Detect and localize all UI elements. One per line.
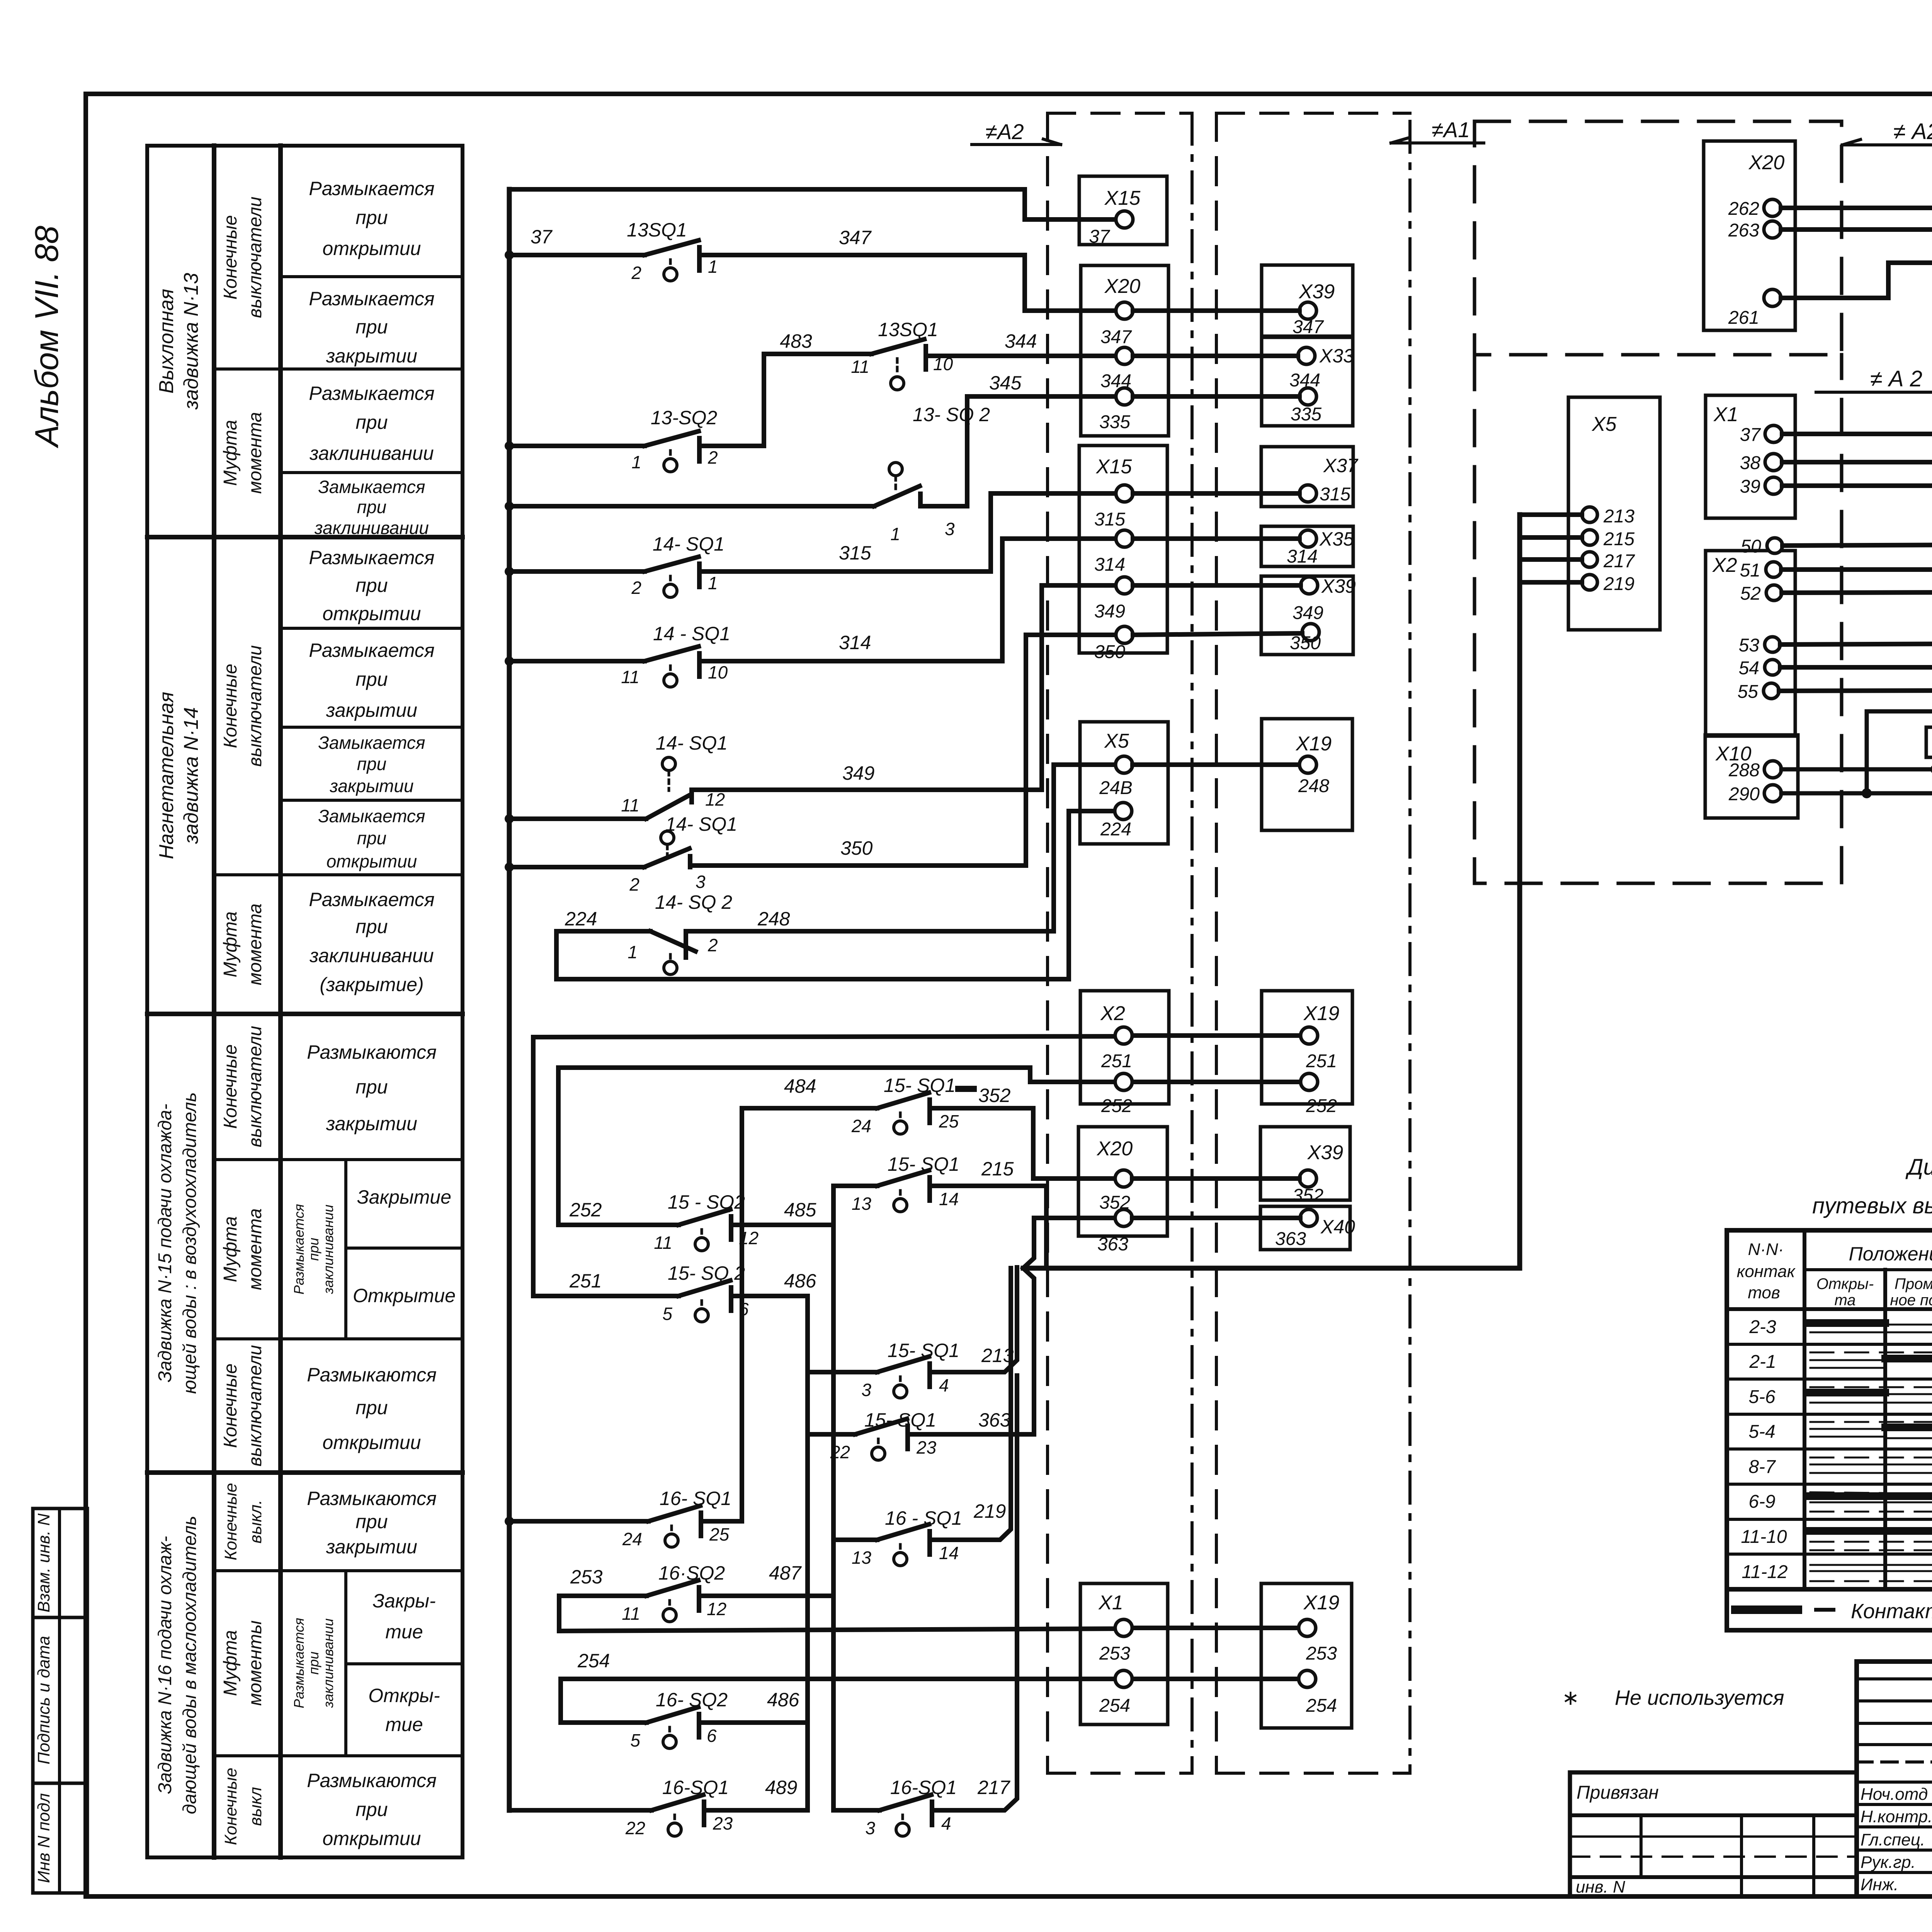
svg-text:13: 13 (852, 1548, 872, 1568)
svg-text:219: 219 (1603, 574, 1634, 594)
svg-text:251: 251 (1101, 1051, 1132, 1071)
svg-text:моменты: моменты (245, 1621, 265, 1706)
svg-text:при: при (355, 916, 388, 937)
svg-text:Открытие: Открытие (353, 1285, 456, 1306)
svg-text:Размыкается: Размыкается (291, 1618, 307, 1708)
svg-text:тие: тие (385, 1714, 423, 1735)
svg-text:14- SQ1: 14- SQ1 (665, 813, 737, 835)
wires X20 right to motor 13 (1781, 208, 1932, 298)
left description table: outer box (147, 146, 463, 1857)
torque switch 13-SQ2 contacts 1-2 (509, 354, 764, 472)
svg-text:252: 252 (569, 1199, 602, 1221)
svg-text:12: 12 (705, 789, 725, 810)
svg-text:13- SQ 2: 13- SQ 2 (913, 404, 990, 425)
svg-text:5-4: 5-4 (1748, 1422, 1775, 1442)
svg-text:закрытии: закрытии (326, 1113, 417, 1134)
diagram row labels (1741, 1317, 1787, 1582)
wires X1 right to motor 14 (1782, 434, 1932, 486)
label "не А2" at unit box top with underline (1893, 119, 1932, 144)
svg-text:224: 224 (1100, 819, 1131, 840)
terminal block X19 (253,254) (1261, 1583, 1352, 1728)
signature names (1861, 1785, 1932, 1894)
svg-text:24: 24 (851, 1116, 871, 1136)
svg-text:14: 14 (939, 1189, 959, 1209)
svg-text:Размыкается: Размыкается (309, 383, 434, 404)
svg-text:13: 13 (852, 1194, 872, 1214)
svg-text:14- SQ1: 14- SQ1 (653, 533, 724, 555)
svg-text:251: 251 (1306, 1051, 1337, 1071)
svg-text:Подпись и дата: Подпись и дата (34, 1636, 53, 1765)
svg-text:при: при (357, 754, 386, 774)
terminal block X35 (314) (1261, 526, 1353, 566)
svg-text:38: 38 (1740, 453, 1761, 473)
svg-text:37: 37 (1089, 226, 1111, 247)
svg-text:Промежуточ-: Промежуточ- (1895, 1276, 1932, 1293)
svg-text:Конечные: Конечные (220, 1044, 241, 1129)
svg-text:Размыкается: Размыкается (309, 639, 434, 661)
svg-text:335: 335 (1291, 404, 1321, 425)
svg-text:224: 224 (565, 908, 597, 930)
svg-text:335: 335 (1099, 412, 1130, 432)
svg-text:Конечные: Конечные (221, 1768, 240, 1845)
limit switch 16-SQ1 contacts 24-25 (509, 1506, 742, 1547)
svg-text:13SQ1: 13SQ1 (627, 219, 687, 241)
svg-text:контак: контак (1737, 1262, 1796, 1281)
terminal block X5 (right, 213 215 217 219) (1568, 397, 1660, 630)
svg-text:Инв N подл: Инв N подл (34, 1793, 53, 1883)
svg-text:50: 50 (1741, 536, 1762, 557)
svg-text:315: 315 (1094, 509, 1125, 530)
svg-text:Не используется: Не используется (1615, 1686, 1784, 1709)
svg-text:X1: X1 (1713, 403, 1738, 426)
svg-text:X1: X1 (1098, 1592, 1123, 1614)
svg-text:задвижка N·13: задвижка N·13 (180, 273, 202, 410)
wire 253 to X1/X19 (559, 1628, 1299, 1631)
svg-text:та: та (1834, 1292, 1855, 1309)
svg-text:заклинивании: заклинивании (320, 1618, 336, 1708)
svg-text:217: 217 (977, 1777, 1011, 1798)
svg-text:3: 3 (865, 1818, 875, 1838)
svg-text:открытии: открытии (323, 603, 421, 624)
dashed bottom edges of cabinet regions (1048, 113, 1410, 1773)
terminal block X20 (352,363) (1078, 1127, 1167, 1236)
limit switch 15-SQ1 contacts 3-4, wire 213 (808, 1267, 1017, 1398)
limit switch 16-SQ1 contacts 3-4, wire 217 (833, 1376, 1017, 1836)
svg-text:262: 262 (1728, 199, 1759, 219)
wire X20-363 to X40-363 (1132, 1216, 1300, 1220)
torque switch 15-SQ2 contacts 11-12, wire 485 (558, 1209, 833, 1251)
svg-text:X5: X5 (1104, 730, 1129, 752)
legend: closed contact (1735, 1605, 1833, 1614)
svg-text:X39: X39 (1321, 575, 1356, 597)
svg-text:Замыкается: Замыкается (318, 806, 425, 826)
wire 347 to X20 (700, 255, 1113, 311)
svg-text:25: 25 (709, 1524, 730, 1544)
svg-text:1: 1 (628, 942, 638, 962)
terminal block X37 (315) (1261, 447, 1353, 507)
svg-text:263: 263 (1728, 220, 1759, 241)
svg-text:213: 213 (1603, 506, 1634, 527)
torque switch 14-SQ2 contacts 1-2, wires 224 / 248 (556, 765, 1113, 979)
svg-text:заклинивании: заклинивании (309, 442, 434, 464)
limit switch 13SQ1 contacts 2-1 (645, 240, 699, 281)
terminal block X39 (347) (1262, 265, 1353, 336)
label "не А2" at lower unit with underline (1870, 366, 1922, 391)
svg-text:открытии: открытии (323, 1432, 421, 1453)
svg-text:254: 254 (1306, 1696, 1337, 1716)
left table col3 texts (307, 178, 456, 1849)
svg-text:217: 217 (1603, 551, 1635, 571)
svg-text:11: 11 (851, 357, 869, 377)
svg-text:288: 288 (1728, 760, 1760, 781)
svg-text:344: 344 (1289, 370, 1320, 391)
svg-text:483: 483 (780, 330, 812, 352)
svg-text:352: 352 (1293, 1185, 1323, 1206)
svg-text:6-9: 6-9 (1748, 1492, 1775, 1512)
svg-text:486: 486 (784, 1270, 816, 1292)
svg-text:Муфта: Муфта (220, 1630, 241, 1696)
svg-text:при: при (355, 1397, 388, 1418)
svg-text:Закрытие: Закрытие (357, 1186, 451, 1208)
svg-text:10: 10 (933, 354, 953, 374)
limit switch 14-SQ1 contacts 11-12, wire 349 (509, 585, 1113, 819)
svg-text:открытии: открытии (323, 1828, 421, 1849)
svg-text:252: 252 (1306, 1096, 1337, 1116)
svg-text:253: 253 (1306, 1643, 1337, 1664)
svg-text:открытии: открытии (323, 238, 421, 259)
svg-text:Нагнетательная: Нагнетательная (155, 692, 178, 859)
svg-text:X35: X35 (1319, 528, 1354, 550)
svg-text:8-7: 8-7 (1748, 1457, 1776, 1477)
limit switch 15-SQ1 contacts 24-25, wires 484/352 (742, 1093, 1115, 1521)
svg-text:Выхлопная: Выхлопная (155, 289, 178, 393)
svg-text:485: 485 (784, 1199, 816, 1221)
svg-text:при: при (355, 1511, 388, 1532)
svg-text:344: 344 (1005, 330, 1037, 352)
svg-text:14- SQ 2: 14- SQ 2 (655, 891, 732, 913)
left supply bus (507, 189, 512, 1810)
svg-text:выключатели: выключатели (245, 645, 265, 767)
svg-text:1: 1 (708, 573, 718, 593)
svg-text:Размыкается: Размыкается (309, 178, 434, 199)
svg-text:5: 5 (662, 1304, 672, 1324)
svg-text:3: 3 (861, 1380, 871, 1400)
wire X20-352 to X39-352 (1132, 1176, 1299, 1181)
svg-text:3: 3 (696, 872, 706, 892)
svg-text:Н.контр.: Н.контр. (1861, 1807, 1932, 1826)
torque switch 15-SQ2 contacts 5-6, wire 486 (533, 1281, 808, 1322)
svg-text:≠ А 2: ≠ А 2 (1870, 366, 1922, 391)
svg-text:23: 23 (916, 1437, 937, 1458)
terminal block X39 (352) (1260, 1127, 1350, 1200)
svg-text:15- SQ1: 15- SQ1 (884, 1075, 956, 1096)
wire 483 row with switch 13SQ1 contacts 11-10 (764, 339, 1113, 390)
label "не А2" top left with leader (985, 119, 1024, 144)
svg-text:при: при (355, 316, 388, 338)
svg-text:тие: тие (385, 1621, 423, 1643)
svg-text:15- SQ1: 15- SQ1 (888, 1340, 959, 1361)
svg-text:5: 5 (630, 1730, 640, 1750)
wires X2 50-52 to motor 15 (1781, 544, 1932, 593)
terminal block X10 (288,290) (1705, 735, 1798, 818)
dashed cabinet boundary line A2 (left) (1046, 113, 1049, 1773)
bus junction dots (505, 250, 514, 1526)
svg-text:при: при (357, 497, 386, 517)
svg-text:∗: ∗ (1562, 1686, 1579, 1709)
svg-text:Размыкаются: Размыкаются (307, 1488, 437, 1509)
vertical link wires of 15/16 group (808, 1186, 833, 1810)
svg-text:выключатели: выключатели (245, 1026, 265, 1147)
svg-text:Откры-: Откры- (368, 1685, 440, 1706)
svg-text:363: 363 (1097, 1234, 1128, 1255)
svg-text:2: 2 (631, 578, 641, 598)
svg-text:при: при (355, 575, 388, 596)
torque switch 16-SQ2 contacts 11-12, wires 253/487 (559, 1580, 833, 1631)
wires X20 344/335 to X33 (1133, 356, 1299, 396)
svg-text:290: 290 (1728, 784, 1760, 804)
svg-text:11: 11 (621, 795, 639, 815)
svg-text:закрытии: закрытии (326, 1536, 417, 1558)
svg-text:выкл: выкл (246, 1787, 265, 1826)
svg-text:Рук.гр.: Рук.гр. (1861, 1853, 1916, 1872)
svg-text:16 - SQ1: 16 - SQ1 (885, 1507, 962, 1529)
svg-text:ное положение: ное положение (1890, 1292, 1932, 1309)
svg-text:закрытии: закрытии (329, 776, 413, 796)
svg-text:349: 349 (1293, 603, 1323, 623)
svg-text:486: 486 (767, 1689, 799, 1711)
wire 347 row: bus to switch 13SQ1 (509, 253, 645, 257)
svg-text:Диаграмма работы: Диаграмма работы (1905, 1155, 1932, 1180)
limit switch 16-SQ1 contacts 13-14, wire 219 (833, 1268, 1011, 1566)
svg-text:16-SQ1: 16-SQ1 (890, 1777, 957, 1798)
terminal block X39 (349,350) (1261, 576, 1353, 655)
svg-text:2: 2 (707, 935, 718, 955)
svg-text:37: 37 (1740, 425, 1762, 445)
svg-text:≠ А2: ≠ А2 (1893, 119, 1932, 144)
terminal block X19 (251,252) (1262, 991, 1352, 1104)
svg-text:52: 52 (1740, 583, 1761, 604)
signature rows grid (1857, 1679, 1932, 1896)
svg-text:Привязан: Привязан (1577, 1782, 1659, 1803)
svg-text:55: 55 (1738, 682, 1759, 702)
svg-text:Размыкается: Размыкается (309, 889, 434, 910)
svg-text:X20: X20 (1748, 151, 1785, 174)
svg-text:253: 253 (570, 1566, 603, 1588)
limit switch 15-SQ1 contacts 13-14, wire 215 (833, 1170, 1046, 1267)
svg-text:315: 315 (839, 542, 871, 564)
svg-text:363: 363 (1275, 1229, 1306, 1249)
svg-text:12: 12 (707, 1599, 726, 1619)
wire 288 from X10 to X41 (1781, 767, 1932, 772)
label "не А1" top with leader (1432, 117, 1470, 142)
left table col2 rotated labels (220, 197, 336, 1845)
dashed boundary line (center-right) (1215, 113, 1218, 1773)
svg-text:Инж.: Инж. (1861, 1875, 1898, 1894)
svg-text:Закры-: Закры- (372, 1590, 435, 1612)
svg-text:Замыкается: Замыкается (318, 477, 425, 497)
svg-text:ющей воды : в воздухоохладител: ющей воды : в воздухоохладитель (180, 1092, 200, 1394)
diagram table row lines (1727, 1344, 1932, 1554)
svg-text:12: 12 (739, 1228, 759, 1248)
svg-text:261: 261 (1728, 308, 1759, 328)
svg-text:X20: X20 (1104, 275, 1141, 298)
svg-text:352: 352 (978, 1085, 1011, 1106)
svg-text:16·SQ2: 16·SQ2 (658, 1562, 725, 1584)
title block (1857, 1662, 1932, 1896)
svg-text:11: 11 (621, 667, 639, 687)
svg-text:248: 248 (1298, 776, 1329, 796)
terminal block X20 (right, 262 263 261) (1704, 141, 1795, 330)
svg-text:Конечные: Конечные (220, 664, 241, 748)
svg-text:14: 14 (939, 1543, 959, 1563)
svg-text:51: 51 (1740, 560, 1760, 581)
svg-text:задвижка N·14: задвижка N·14 (180, 707, 202, 844)
svg-text:≠А2: ≠А2 (985, 119, 1024, 144)
svg-text:Муфта: Муфта (220, 420, 241, 486)
svg-text:251: 251 (569, 1270, 602, 1292)
svg-text:363: 363 (978, 1409, 1011, 1431)
limit switch 14-SQ1 contacts 2-1, wire 315 (509, 493, 1113, 597)
svg-text:2: 2 (707, 447, 718, 468)
svg-text:350: 350 (1094, 642, 1125, 662)
svg-text:1: 1 (631, 452, 641, 472)
album label "Альбом VII.88" (rotated, left margin) (29, 226, 65, 449)
svg-text:14 - SQ1: 14 - SQ1 (653, 623, 730, 645)
svg-text:при: при (355, 207, 388, 228)
terminal block X15 (top) (1079, 176, 1167, 245)
svg-text:Размыкается: Размыкается (309, 288, 434, 310)
svg-text:253: 253 (1099, 1643, 1130, 1664)
svg-text:11: 11 (654, 1233, 672, 1253)
svg-text:13-SQ2: 13-SQ2 (651, 407, 718, 429)
X5 terminal stub wires to bundle (1520, 515, 1582, 582)
svg-text:заклинивании: заклинивании (309, 945, 434, 966)
svg-text:22: 22 (830, 1442, 850, 1462)
svg-text:349: 349 (1094, 601, 1125, 622)
left margin stamp strip table (33, 1509, 87, 1893)
svg-text:Взам. инв. N: Взам. инв. N (34, 1514, 53, 1612)
svg-text:2: 2 (629, 874, 639, 895)
svg-text:при: при (355, 1076, 388, 1098)
svg-text:при: при (306, 1238, 321, 1261)
svg-text:X19: X19 (1303, 1002, 1340, 1025)
wire 345 row into X20 terminal 335 (967, 396, 1113, 506)
svg-text:X5: X5 (1592, 413, 1617, 435)
diagram table title (1812, 1155, 1932, 1218)
svg-text:X19: X19 (1303, 1592, 1340, 1614)
svg-text:выключатели: выключатели (245, 197, 265, 318)
dash-dot boundary line (center-left) (1190, 113, 1194, 1773)
svg-text:6: 6 (739, 1299, 749, 1319)
svg-text:2-3: 2-3 (1749, 1317, 1776, 1337)
wire 290 from X10 to X41 (1781, 791, 1932, 796)
terminal block X1 (253,254) (1080, 1583, 1168, 1725)
dashed enclosure box of unit A2 (upper, around X20) (1475, 121, 1842, 355)
svg-text:Размыкаются: Размыкаются (307, 1041, 437, 1063)
svg-text:при: при (355, 668, 388, 690)
diagram table headers (1737, 1240, 1932, 1309)
svg-text:Конечные: Конечные (220, 1364, 241, 1448)
svg-text:215: 215 (1603, 529, 1634, 549)
left table col1 rotated titles (155, 273, 202, 1814)
svg-text:момента: момента (245, 412, 265, 494)
svg-text:54: 54 (1739, 658, 1759, 679)
terminal block X15 (second) (1079, 446, 1167, 653)
svg-text:14- SQ1: 14- SQ1 (656, 732, 728, 754)
svg-text:Задвижка N·16 подачи охлаж-: Задвижка N·16 подачи охлаж- (155, 1536, 175, 1794)
svg-text:при: при (355, 1799, 388, 1820)
svg-text:5-6: 5-6 (1748, 1387, 1776, 1407)
svg-text:выкл.: выкл. (246, 1500, 265, 1543)
svg-text:11: 11 (622, 1604, 640, 1624)
svg-text:Положение задвижки: Положение задвижки (1849, 1243, 1932, 1265)
wire X5-248 to X19-248 (1133, 762, 1299, 767)
svg-text:X2: X2 (1100, 1002, 1125, 1025)
wires X15 315/314/349/350 to right column blocks (1133, 493, 1302, 635)
limit switch 16-SQ1 contacts 22-23, wire 489 (509, 1795, 808, 1836)
wire 252: to X2 and X19 (558, 1068, 1301, 1225)
wires X2 53-55 to motor 16 (1779, 643, 1932, 691)
note: not used (1562, 1686, 1784, 1709)
torque switch 16-SQ2 contacts 5-6, wire 486 (561, 1707, 808, 1748)
svg-text:дающей воды в маслоохладитель: дающей воды в маслоохладитель (180, 1516, 200, 1815)
svg-text:11-10: 11-10 (1741, 1527, 1787, 1547)
svg-text:Муфта: Муфта (220, 912, 241, 978)
diagram thick closed-contact bars (1810, 1323, 1932, 1567)
svg-text:при: при (306, 1651, 321, 1675)
svg-text:X15: X15 (1104, 187, 1141, 209)
svg-text:при: при (357, 828, 386, 848)
svg-text:6: 6 (707, 1726, 717, 1746)
svg-text:X19: X19 (1296, 733, 1332, 755)
svg-text:314: 314 (1094, 554, 1125, 575)
limit switch 14-SQ1 contacts 2-3, wire 350 (509, 635, 1113, 867)
limit switch 14-SQ1 contacts 11-10, wire 314 (509, 539, 1113, 687)
svg-text:Альбом VII. 88: Альбом VII. 88 (29, 226, 65, 449)
svg-text:347: 347 (839, 227, 872, 248)
svg-text:X39: X39 (1307, 1141, 1344, 1164)
svg-text:489: 489 (765, 1777, 797, 1798)
limit switch 15-SQ1 contacts 22-23, wire 363 with crossing hop (808, 1218, 1115, 1460)
svg-text:314: 314 (839, 632, 871, 653)
svg-text:347: 347 (1100, 327, 1132, 347)
wire row 1: bus to X15 terminal 37 (509, 189, 1113, 219)
terminal block X20 (top) (1081, 265, 1168, 436)
svg-text:X37: X37 (1323, 455, 1359, 476)
svg-text:путевых выключателей 13-SQ1,: путевых выключателей 13-SQ1, 14-SQ1 (1812, 1193, 1932, 1218)
svg-text:252: 252 (1101, 1096, 1132, 1116)
svg-text:219: 219 (973, 1500, 1006, 1522)
svg-text:484: 484 (784, 1075, 816, 1097)
svg-text:при: при (355, 412, 388, 433)
svg-text:347: 347 (1293, 317, 1324, 337)
svg-text:Конечные: Конечные (221, 1483, 240, 1560)
svg-text:2: 2 (631, 263, 641, 283)
svg-text:11-12: 11-12 (1742, 1562, 1787, 1582)
svg-text:15- SQ 2: 15- SQ 2 (668, 1262, 745, 1284)
svg-text:Задвижка N·15 подачи охлажда-: Задвижка N·15 подачи охлажда- (155, 1104, 175, 1382)
svg-text:1: 1 (708, 257, 718, 277)
svg-text:352: 352 (1099, 1192, 1130, 1213)
svg-text:3: 3 (945, 519, 955, 539)
svg-text:344: 344 (1100, 371, 1131, 391)
svg-text:15 - SQ2: 15 - SQ2 (668, 1191, 745, 1213)
torque switch 13-SQ2 contacts 1-3 (509, 463, 967, 506)
terminal block X2 (right, 50..55) (1706, 538, 1795, 736)
svg-text:закрытии: закрытии (326, 699, 417, 721)
svg-text:X15: X15 (1096, 456, 1133, 478)
svg-text:выключатели: выключатели (245, 1345, 265, 1466)
